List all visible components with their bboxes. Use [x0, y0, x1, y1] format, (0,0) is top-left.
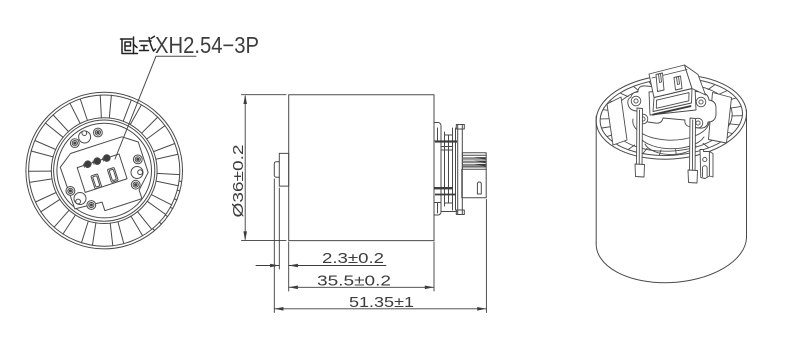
terminal tab right: [700, 150, 709, 179]
motor body: [289, 95, 434, 241]
pin 1: [84, 160, 92, 168]
rotor body arcs: [633, 119, 709, 140]
wire bundle box: [462, 153, 486, 170]
pedestal shadow band: [652, 105, 691, 116]
prong 1 notch: [659, 74, 662, 83]
svg-text:Ø36±0.2: Ø36±0.2: [230, 145, 247, 218]
step line top1: [441, 146, 453, 148]
flange bottom cap: [456, 210, 464, 215]
clamp screw BL: [638, 114, 648, 124]
ext line x274.3: [273, 179, 275, 313]
cylinder right side: [746, 110, 748, 238]
plain circle C: [82, 131, 87, 136]
ext line x288.7: [288, 242, 290, 291]
prong 2 notch: [677, 77, 680, 85]
top tab: [434, 123, 441, 142]
slot 2: [107, 167, 118, 182]
iso fan fins ring: [601, 79, 742, 155]
inner fan ring ellipse: [608, 80, 734, 155]
dim 51.35 line: [274, 308, 486, 310]
lobe circle C: [79, 131, 91, 143]
prong 2: [674, 76, 682, 90]
wires dark: [463, 157, 486, 160]
outer circle inner line: [29, 95, 180, 246]
left magnet window: [607, 97, 627, 145]
ext line x434: [433, 242, 435, 291]
dim 2.3 left approach: [256, 265, 279, 267]
connector plate assembly: [57, 132, 155, 219]
cylinder left side: [595, 116, 597, 243]
connector box front face: [653, 89, 692, 112]
screw boss D: [66, 187, 75, 196]
plain circle H: [138, 170, 143, 175]
flange: [458, 125, 463, 215]
dim phi36 line: [244, 96, 246, 239]
screw boss B: [94, 128, 103, 137]
fin ring inner circle: [51, 118, 157, 224]
leader line: [115, 56, 196, 159]
dim phi36 extension top: [242, 94, 287, 96]
svg-text:35.5±0.2: 35.5±0.2: [317, 273, 391, 290]
svg-text:2.3±0.2: 2.3±0.2: [322, 250, 384, 267]
pin 2: [93, 157, 101, 165]
slot 1: [91, 174, 102, 189]
connector housing: [77, 154, 127, 192]
plain circle E: [76, 199, 81, 204]
inner plate circle: [57, 123, 152, 218]
screw boss I: [131, 180, 140, 189]
connector box top face: [649, 65, 692, 98]
left tower foot: [635, 164, 645, 177]
lobe circle E: [74, 193, 86, 205]
fan fins ring: [29, 95, 180, 246]
rim serration ticks: [153, 181, 182, 231]
right clip tower: [690, 118, 696, 175]
cylinder bottom arc: [596, 238, 746, 283]
plate outline: [57, 132, 155, 219]
box right face: [685, 65, 706, 95]
front face inner rect: [656, 93, 689, 109]
lobe circle H: [131, 167, 143, 179]
terminal tab slot: [703, 166, 708, 177]
step line bottom: [441, 211, 457, 213]
right magnet window: [709, 93, 732, 144]
ext line x486.4: [485, 200, 487, 313]
label 卧式 (drawn strokes): [121, 36, 156, 53]
bracket: [462, 169, 486, 198]
clamp screw TL: [631, 96, 641, 106]
right endbell assembly: [434, 123, 486, 216]
tab inner line bottom: [437, 203, 439, 213]
dim 2.3 right line: [289, 265, 386, 267]
svg-text:XH2.54−3P: XH2.54−3P: [155, 32, 259, 58]
step line top2: [441, 149, 453, 151]
screw boss F: [87, 201, 96, 210]
front plate: [279, 153, 288, 186]
connector pedestal: [649, 87, 696, 115]
terminal tab hole: [703, 157, 707, 161]
flange top cap: [456, 125, 464, 130]
bar bottom2: [435, 194, 456, 196]
screw boss G: [133, 155, 142, 164]
pin 3: [103, 154, 111, 162]
dark bar top: [435, 140, 457, 142]
svg-text:51.35±1: 51.35±1: [349, 294, 414, 311]
clamp screw BR: [693, 118, 703, 128]
prong 1: [656, 73, 664, 92]
dark bar bottom1: [434, 187, 453, 189]
bracket slot: [477, 182, 481, 194]
cylinder outer rim ellipse: [593, 70, 749, 164]
column lines: [440, 128, 442, 209]
shaft boss: [274, 162, 279, 178]
ext line x279.3: [278, 188, 280, 269]
rim inner ellipse: [598, 74, 746, 160]
right tower foot: [688, 170, 698, 183]
dim 35.5 line: [289, 286, 434, 288]
outer circle: [26, 92, 183, 249]
fin ring inner second circle: [54, 120, 155, 221]
left clip tower: [637, 108, 643, 168]
tab inner line top: [437, 128, 439, 140]
terminal tab side face: [709, 152, 713, 178]
box inner top line: [652, 70, 687, 79]
screw boss A: [70, 139, 79, 148]
screw bosses group: [66, 128, 143, 209]
brush card clamp plate: [628, 86, 716, 128]
dim phi36 extension bottom: [242, 240, 287, 242]
bottom tab: [434, 203, 441, 216]
clamp screw TR: [696, 97, 706, 107]
